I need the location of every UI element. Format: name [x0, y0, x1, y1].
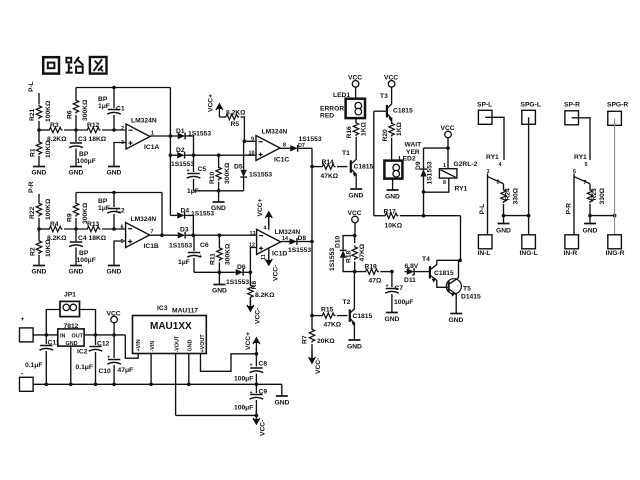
diode D4 1S1553	[170, 208, 214, 219]
LED1 ERROR RED	[320, 87, 365, 119]
svg-text:100μF: 100μF	[77, 257, 96, 264]
svg-text:R14: R14	[322, 159, 335, 166]
svg-text:GND: GND	[347, 344, 362, 351]
capacitor C4 100uF BP	[69, 229, 96, 265]
capacitor C6 1uF	[178, 235, 209, 272]
svg-text:330Ω: 330Ω	[513, 187, 520, 204]
svg-text:R18: R18	[346, 250, 353, 263]
wire R4 to R13	[64, 227, 86, 231]
wire 7812 OUT line	[84, 333, 125, 337]
svg-text:C5: C5	[198, 166, 207, 173]
svg-text:C12: C12	[97, 341, 110, 348]
svg-text:C8: C8	[259, 361, 268, 368]
svg-text:VCC-: VCC-	[255, 308, 262, 324]
svg-text:100μF: 100μF	[394, 299, 413, 306]
wire SPG-L to ING-L	[528, 117, 530, 236]
svg-text:8: 8	[443, 180, 446, 186]
svg-text:LM324N: LM324N	[275, 229, 301, 236]
resistor R23 330	[587, 184, 606, 218]
wire SP-R to contact pin5	[572, 118, 590, 168]
node P-R input label	[28, 181, 35, 193]
svg-text:1μF: 1μF	[187, 188, 199, 195]
svg-text:IC1D: IC1D	[272, 251, 287, 258]
connector SPG-L	[521, 102, 541, 125]
connector ING-R	[606, 235, 625, 257]
resistor R22 100K	[29, 198, 52, 229]
title 回路図	[43, 57, 106, 74]
ground under R2	[32, 266, 47, 276]
power VCC above LED1	[348, 75, 362, 88]
wire R5 to IC1C pin9	[241, 117, 257, 157]
wire P-R down	[38, 194, 40, 202]
LED2 WAIT YER	[384, 142, 422, 190]
svg-text:12: 12	[249, 243, 255, 249]
wire JP1 left leg	[46, 310, 60, 335]
wire IC1A output	[150, 134, 177, 138]
power VCC- arrow below C9	[253, 411, 267, 436]
power VCC+ above IC1D pin4	[257, 198, 272, 229]
wire P-R contact to IN-R	[566, 177, 575, 236]
svg-text:4: 4	[499, 162, 502, 168]
svg-text:1S1553: 1S1553	[171, 161, 194, 168]
svg-text:SPG-L: SPG-L	[521, 102, 541, 109]
wire R17 line corner down to T4 collector	[460, 216, 462, 261]
op-amp IC1D	[250, 226, 301, 258]
diode D6 1S1553	[226, 264, 249, 286]
svg-text:1S1553: 1S1553	[427, 161, 434, 184]
svg-text:R6: R6	[67, 110, 74, 119]
svg-text:+: +	[187, 168, 190, 174]
wire C6 bottom line to D6	[194, 271, 234, 275]
svg-text:1S1553: 1S1553	[191, 211, 214, 218]
svg-text:D6: D6	[237, 264, 246, 271]
resistor R3 8.2K	[47, 122, 67, 143]
svg-text:0.1μF: 0.1μF	[76, 364, 93, 371]
svg-text:47KΩ: 47KΩ	[324, 322, 342, 329]
svg-text:C4: C4	[78, 235, 87, 242]
svg-text:GND: GND	[69, 170, 84, 177]
wire SPG-R to ING-R	[614, 118, 616, 236]
svg-text:VCC+: VCC+	[208, 94, 215, 112]
node junction main line row2	[37, 227, 48, 231]
wire IC1A pin3 to ground	[114, 143, 126, 167]
svg-text:R4: R4	[50, 221, 59, 228]
svg-text:T3: T3	[380, 93, 388, 100]
svg-text:VCC-: VCC-	[260, 420, 267, 436]
svg-text:C2: C2	[116, 208, 125, 215]
svg-text:R8: R8	[251, 281, 258, 290]
resistor R9 300K	[67, 193, 90, 230]
svg-text:RY1: RY1	[486, 154, 499, 161]
svg-text:GND: GND	[212, 288, 227, 295]
ground under IC1B pin5	[107, 266, 122, 276]
resistor R6 300K	[67, 88, 90, 131]
diode D3 1S1553	[169, 227, 192, 250]
svg-text:C11: C11	[48, 340, 60, 347]
svg-text:P-L: P-L	[479, 204, 486, 215]
svg-text:100μF: 100μF	[234, 405, 253, 412]
svg-text:1S1553: 1S1553	[329, 248, 336, 271]
power VCC- below IC1D pin11	[261, 247, 280, 281]
svg-text:BP: BP	[98, 96, 108, 103]
ground under R24	[496, 216, 511, 235]
transistor T4 C1815	[422, 256, 454, 287]
svg-text:T5: T5	[463, 286, 471, 293]
svg-text:C10: C10	[99, 368, 112, 375]
svg-text:R12: R12	[87, 122, 100, 129]
ground under IC1A pin3	[107, 167, 122, 177]
relay contact RY1 left	[486, 154, 504, 186]
wire D4 to junction	[187, 215, 193, 235]
power VCC above T3	[384, 75, 398, 104]
svg-text:GND: GND	[385, 194, 400, 201]
wire C5/D5 bottom line	[194, 189, 244, 193]
svg-text:GND: GND	[349, 193, 364, 200]
svg-text:11: 11	[261, 254, 267, 260]
op-amp IC1A	[121, 118, 159, 152]
ground under R1	[32, 167, 47, 177]
transistor T2 C1815	[343, 272, 373, 340]
svg-text:R1: R1	[30, 148, 37, 157]
svg-text:R17: R17	[384, 209, 397, 216]
svg-text:SP-R: SP-R	[564, 102, 580, 109]
svg-text:RY1: RY1	[574, 154, 587, 161]
relay contact RY1 right	[573, 154, 590, 186]
svg-text:RY1: RY1	[455, 186, 468, 193]
connector SPG-R	[607, 102, 628, 126]
svg-text:330Ω: 330Ω	[599, 187, 606, 204]
svg-text:10: 10	[249, 151, 255, 157]
svg-text:1S1553: 1S1553	[226, 279, 249, 286]
wire feedback rail row1	[76, 86, 170, 90]
wire R23 junction to SPG-R line	[590, 214, 616, 218]
svg-text:9: 9	[251, 137, 254, 143]
svg-text:GND: GND	[275, 400, 290, 407]
svg-text:6.8V: 6.8V	[405, 263, 419, 270]
connector JP1	[60, 292, 80, 317]
svg-text:C7: C7	[395, 285, 404, 292]
resistor R19 47	[355, 264, 394, 285]
svg-text:100μF: 100μF	[77, 158, 96, 165]
svg-text:2: 2	[497, 180, 500, 186]
wire feedback rail row2	[76, 191, 162, 195]
svg-text:R21: R21	[29, 108, 36, 121]
capacitor C1 1uF BP	[98, 88, 125, 131]
wire D3 junction to IC1D pin13	[188, 233, 257, 237]
capacitor C7 100uF	[385, 272, 413, 312]
diode D2 1S1553	[170, 147, 194, 168]
svg-text:8.2KΩ: 8.2KΩ	[255, 292, 275, 299]
capacitor C11 0.1uF	[25, 335, 60, 384]
svg-text:R11: R11	[210, 253, 217, 265]
svg-text:8.2KΩ: 8.2KΩ	[226, 110, 246, 117]
svg-text:IC3: IC3	[157, 305, 168, 312]
svg-text:18KΩ: 18KΩ	[89, 235, 107, 242]
diode D7 1S1553	[280, 136, 322, 152]
wire SP-L to contact pin4	[485, 117, 504, 168]
svg-text:C1815: C1815	[434, 270, 454, 277]
svg-text:7: 7	[151, 229, 154, 235]
svg-text:R20: R20	[382, 129, 389, 142]
diode D8 1S1553	[281, 235, 312, 254]
resistor R13 18K	[86, 221, 107, 242]
diode D10 1S1553	[329, 235, 355, 271]
svg-text:GND: GND	[583, 228, 598, 235]
transistor T3 C1815	[374, 93, 413, 123]
svg-text:C1815: C1815	[353, 313, 373, 320]
svg-text:WAIT: WAIT	[405, 142, 423, 149]
svg-text:D1415: D1415	[461, 294, 481, 301]
transistor T5 D1415 darlington	[446, 260, 481, 313]
svg-text:1S1553: 1S1553	[169, 243, 192, 250]
wire + to 7812 IN	[33, 333, 58, 337]
power VCC+ arrow to R5	[208, 94, 226, 117]
connector - input	[20, 371, 34, 392]
svg-text:MAU117: MAU117	[172, 308, 198, 315]
wire D8 to bus	[299, 240, 314, 244]
svg-text:R15: R15	[321, 307, 334, 314]
svg-text:C9: C9	[259, 389, 268, 396]
resistor R8 8.2K	[248, 281, 275, 308]
regulator IC2 7812	[58, 323, 88, 356]
ground under C7	[385, 313, 400, 324]
ground under R10	[211, 202, 226, 212]
svg-text:D2: D2	[176, 147, 185, 154]
svg-text:SPG-R: SPG-R	[607, 102, 628, 109]
svg-text:R22: R22	[29, 206, 36, 219]
wire R24 junction to SPG-L line	[504, 214, 531, 218]
wire IC1B pin5 to ground	[114, 241, 126, 265]
svg-text:1μF: 1μF	[98, 103, 110, 110]
svg-text:GND: GND	[69, 269, 84, 276]
svg-text:R9: R9	[67, 213, 74, 222]
wire T3 base vertical	[373, 111, 375, 216]
capacitor C5 1uF	[187, 155, 207, 195]
svg-text:D9: D9	[415, 161, 422, 170]
svg-text:R7: R7	[302, 335, 309, 344]
wire P-L contact to IN-L	[479, 177, 488, 236]
wire MAU GND pin	[188, 354, 190, 385]
svg-text:20KΩ: 20KΩ	[317, 338, 335, 345]
svg-text:LM324N: LM324N	[262, 129, 288, 136]
svg-text:GND: GND	[385, 316, 400, 323]
svg-text:JP1: JP1	[64, 292, 76, 299]
op-amp IC1B	[121, 216, 159, 250]
svg-text:ERROR: ERROR	[320, 106, 344, 113]
svg-text:LM324N: LM324N	[131, 118, 157, 125]
svg-text:47μF: 47μF	[118, 367, 134, 374]
svg-text:R16: R16	[346, 126, 353, 139]
wire VCC junction to D9	[424, 148, 449, 168]
resistor R17 10K	[374, 209, 461, 230]
svg-text:R2: R2	[30, 247, 37, 256]
svg-text:GND: GND	[66, 341, 78, 347]
svg-text:GND: GND	[188, 339, 194, 351]
svg-text:GND: GND	[449, 317, 464, 324]
resistor R7 20K	[302, 328, 336, 359]
svg-text:VCC-: VCC-	[315, 358, 322, 374]
svg-text:D10: D10	[335, 235, 342, 248]
svg-text:ING-R: ING-R	[606, 250, 625, 257]
svg-text:R13: R13	[87, 221, 100, 228]
resistor R14 47K	[312, 159, 348, 180]
svg-text:RED: RED	[320, 113, 334, 120]
svg-text:-: -	[21, 371, 23, 378]
ground under T5	[449, 314, 464, 325]
svg-text:T2: T2	[343, 299, 351, 306]
svg-text:IC1C: IC1C	[274, 157, 289, 164]
wire T4 collector line	[437, 259, 462, 263]
svg-text:LM324N: LM324N	[131, 216, 157, 223]
wire ground rail	[33, 383, 282, 387]
svg-text:R19: R19	[365, 264, 378, 271]
capacitor C2 1uF BP	[98, 193, 125, 230]
svg-text:D1: D1	[176, 128, 185, 135]
svg-text:D11: D11	[404, 277, 416, 284]
wire IC1B feedback vertical	[161, 193, 163, 236]
op-amp IC1C	[256, 129, 289, 164]
wire OUT to MAU +VIN	[125, 335, 138, 358]
dc-dc converter IC3 MAU117	[133, 305, 207, 354]
svg-text:R5: R5	[231, 121, 240, 128]
svg-text:IC2: IC2	[77, 349, 88, 356]
svg-text:100KΩ: 100KΩ	[45, 198, 52, 220]
svg-text:300KΩ: 300KΩ	[82, 99, 89, 121]
connector SP-R	[564, 102, 580, 125]
svg-text:IN-R: IN-R	[564, 250, 578, 257]
svg-text:R3: R3	[50, 122, 59, 129]
svg-text:GND: GND	[496, 228, 511, 235]
svg-text:-VOUT: -VOUT	[175, 335, 181, 352]
svg-text:1KΩ: 1KΩ	[396, 121, 403, 136]
power VCC+ arrow above C8	[245, 332, 260, 354]
zener D11 6.8V	[404, 263, 429, 284]
svg-text:VCC+: VCC+	[245, 332, 252, 350]
svg-text:1S1553: 1S1553	[299, 136, 322, 143]
wire D1 to junction	[188, 136, 194, 155]
wire VCC- rail	[176, 414, 259, 418]
svg-text:7: 7	[584, 180, 587, 186]
svg-text:1KΩ: 1KΩ	[361, 121, 368, 136]
svg-text:VCC-: VCC-	[273, 265, 280, 281]
svg-text:+VOUT: +VOUT	[200, 334, 206, 353]
resistor R15 47K	[312, 307, 348, 329]
wire D9 junction down to R17 line	[422, 192, 426, 218]
svg-text:MAU1XX: MAU1XX	[150, 321, 192, 332]
wire R21 to node	[38, 121, 40, 130]
ground under C3	[69, 167, 84, 177]
wire R3 to R12	[64, 128, 86, 132]
connector IN-R	[564, 235, 579, 257]
ground at rail end	[275, 384, 290, 406]
svg-text:R23: R23	[591, 188, 598, 201]
wire R12 to IC1A pin2	[102, 128, 126, 132]
resistor R4 8.2K	[47, 221, 67, 242]
svg-text:VCC+: VCC+	[257, 198, 264, 216]
wire MAU +VOUT to C8 node	[201, 352, 259, 371]
node junction main line row1	[37, 128, 48, 132]
ground under C4	[69, 266, 84, 276]
capacitor C9 100uF	[234, 384, 267, 415]
resistor R11 300K	[210, 235, 232, 272]
svg-text:BP: BP	[79, 151, 89, 158]
svg-text:BP: BP	[79, 250, 89, 257]
wire P-L down to R21	[38, 93, 40, 104]
svg-text:GND: GND	[107, 170, 122, 177]
svg-text:1μF: 1μF	[98, 205, 110, 212]
diode D9 1S1553	[415, 161, 434, 194]
svg-text:IC1B: IC1B	[144, 243, 159, 250]
capacitor C8 100uF	[234, 354, 267, 385]
svg-text:D4: D4	[181, 208, 190, 215]
svg-text:0.1μF: 0.1μF	[25, 362, 42, 369]
capacitor C12 0.1uF	[76, 335, 110, 384]
resistor R18 47K	[346, 236, 367, 274]
svg-text:R10: R10	[209, 171, 216, 184]
svg-text:P-L: P-L	[28, 81, 35, 92]
resistor R2 10K	[30, 229, 53, 265]
svg-text:+VIN: +VIN	[136, 339, 142, 351]
svg-text:1S1553: 1S1553	[249, 172, 272, 179]
svg-text:47KΩ: 47KΩ	[359, 243, 366, 261]
svg-text:13: 13	[250, 231, 256, 237]
svg-text:10KΩ: 10KΩ	[385, 223, 403, 230]
svg-text:+: +	[199, 254, 202, 260]
power VCC- under R7	[309, 350, 322, 374]
svg-text:5: 5	[585, 162, 588, 168]
svg-text:IC1A: IC1A	[144, 144, 159, 151]
svg-text:BP: BP	[98, 198, 108, 205]
svg-text:GND: GND	[107, 269, 122, 276]
wire R13 to IC1B pin6	[102, 227, 126, 231]
connector ING-L	[520, 235, 538, 257]
diode D1 1S1553	[176, 128, 212, 139]
resistor R12 18K	[86, 122, 107, 143]
svg-text:IN-L: IN-L	[478, 250, 491, 257]
svg-text:4: 4	[264, 226, 267, 232]
capacitor C10 47uF	[99, 335, 134, 384]
svg-text:+: +	[21, 316, 25, 323]
svg-text:OUT: OUT	[72, 334, 84, 340]
resistor R24 330	[501, 184, 520, 218]
connector IN-L	[478, 235, 493, 257]
ground under R11	[212, 272, 227, 294]
svg-text:6: 6	[121, 225, 124, 231]
relay coil RY1 G2RL-2	[424, 148, 478, 192]
svg-text:T1: T1	[342, 150, 350, 157]
svg-text:100μF: 100μF	[234, 376, 253, 383]
svg-text:P-R: P-R	[566, 203, 573, 215]
svg-text:10KΩ: 10KΩ	[45, 140, 52, 158]
wire D6 to R8 junction and IC1D pin12	[246, 243, 257, 286]
wire MAU -VOUT pin	[175, 354, 177, 416]
resistor R21 100K	[29, 100, 52, 122]
svg-text:47Ω: 47Ω	[369, 278, 382, 285]
svg-text:C1: C1	[116, 106, 125, 113]
svg-text:ING-L: ING-L	[520, 250, 538, 257]
svg-text:C1815: C1815	[393, 108, 413, 115]
wire D2 junction to IC1C pin10	[187, 153, 256, 157]
connector + input	[20, 316, 34, 342]
ground under T1	[349, 189, 364, 200]
svg-text:G2RL-2: G2RL-2	[454, 161, 478, 168]
svg-text:D3: D3	[180, 227, 189, 234]
svg-text:GND: GND	[32, 269, 47, 276]
resistor R16 1K	[346, 118, 368, 139]
resistor R5 8.2K	[225, 110, 247, 129]
resistor R10 300K	[209, 155, 231, 201]
diode D5 1S1553	[234, 141, 272, 191]
